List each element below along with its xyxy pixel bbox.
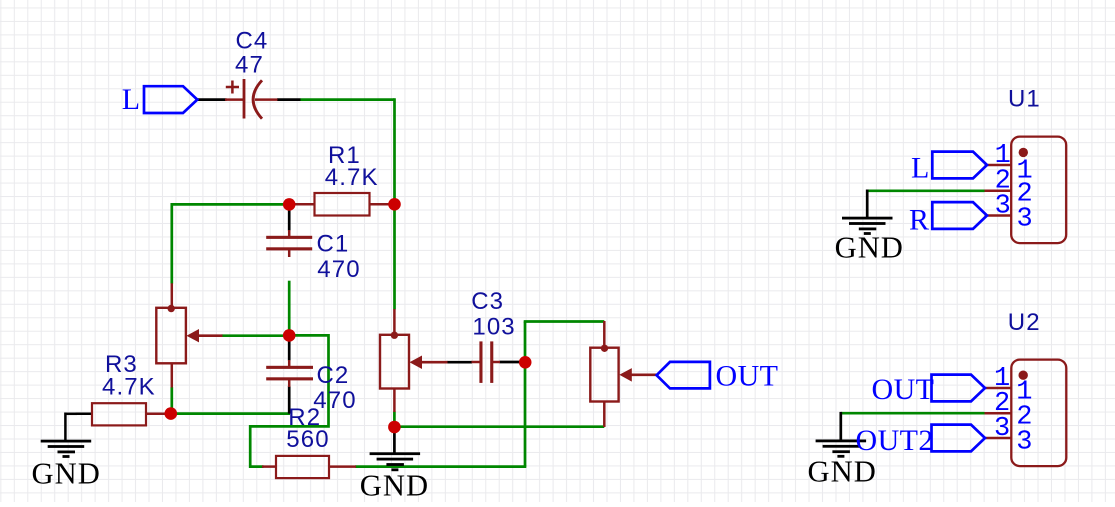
wire black C2 top lead from junction xyxy=(288,336,291,361)
wire black middle GND stem xyxy=(393,427,396,453)
svg-text:470: 470 xyxy=(317,256,360,283)
wire green vertical net x525 xyxy=(524,322,527,467)
svg-text:GND: GND xyxy=(835,231,904,265)
pin 2 of U1 xyxy=(985,190,1012,193)
wire black U1 GND stem xyxy=(866,190,869,219)
wire green bracket around R2 xyxy=(250,335,328,466)
svg-text:L: L xyxy=(122,83,141,116)
svg-text:560: 560 xyxy=(286,426,329,453)
wire green left pot wiper to junction xyxy=(222,334,290,337)
svg-text:3: 3 xyxy=(994,414,1010,444)
net flag OUT (left-pointing, at right pot) xyxy=(657,362,710,389)
svg-text:GND: GND xyxy=(808,454,877,488)
pin 2 of U2 xyxy=(985,412,1012,415)
ground (middle) xyxy=(370,452,421,471)
svg-text:3: 3 xyxy=(1017,205,1033,235)
wire green GND junction to right pot bottom xyxy=(394,425,604,428)
svg-text:C1: C1 xyxy=(317,231,350,258)
net flag L at U1 pin 1 xyxy=(932,152,987,179)
wire green middle pot bottom to junction xyxy=(393,412,396,428)
svg-text:GND: GND xyxy=(32,456,101,490)
pin 1 of U1 xyxy=(985,164,1012,167)
node junction R1 left / C1 xyxy=(283,198,296,211)
svg-text:GND: GND xyxy=(360,468,429,502)
svg-text:U2: U2 xyxy=(1008,309,1041,336)
svg-text:103: 103 xyxy=(472,314,515,341)
net flag L xyxy=(144,86,197,113)
potentiometer right xyxy=(590,321,657,427)
net flag R at U1 pin 3 xyxy=(932,202,987,229)
svg-text:3: 3 xyxy=(995,191,1011,221)
wire green U2 GND to pin 2 xyxy=(841,412,985,415)
wire black C1 top lead from R1 junction xyxy=(288,205,291,231)
wire black C4 right lead to green xyxy=(277,98,301,101)
svg-text:OUT2: OUT2 xyxy=(856,424,934,457)
pin 3 of U1 xyxy=(985,214,1012,217)
connector U2 body xyxy=(1011,360,1066,467)
wire green left pot bottom to junction xyxy=(170,387,173,413)
ground (U1) xyxy=(842,217,893,235)
node junction C1 bottom / wiper xyxy=(283,329,296,342)
wire green junction to C2 bottom node xyxy=(171,412,290,415)
wire green top right to pot xyxy=(524,320,605,323)
svg-text:U1: U1 xyxy=(1008,85,1041,112)
potentiometer left (top pin, body, wiper) xyxy=(156,283,222,387)
node junction C3 right xyxy=(519,356,532,369)
wire green U1 GND to pin 2 xyxy=(867,189,984,192)
capacitor C2 xyxy=(266,360,313,387)
wire green vertical R1 to middle pot xyxy=(393,204,396,309)
node junction middle GND xyxy=(388,421,401,434)
svg-text:OUT: OUT xyxy=(872,373,935,406)
svg-text:47: 47 xyxy=(235,51,264,78)
potentiometer middle xyxy=(380,309,448,412)
wire green R1 left junction to left corner xyxy=(171,203,291,206)
svg-text:R: R xyxy=(909,204,929,237)
resistor R2 xyxy=(262,456,356,478)
svg-text:C2: C2 xyxy=(317,362,350,389)
svg-text:OUT: OUT xyxy=(716,359,779,392)
wire green left vertical down to left pot xyxy=(170,203,173,284)
capacitor C3 xyxy=(472,341,501,383)
svg-text:4.7K: 4.7K xyxy=(325,164,379,191)
connector U1 body xyxy=(1011,137,1066,244)
capacitor C1 xyxy=(266,230,312,257)
svg-text:L: L xyxy=(911,151,930,184)
net flag OUT at U2 pin 1 xyxy=(932,375,986,402)
pin 3 of U2 xyxy=(985,437,1012,440)
wire green C1 bottom to junction xyxy=(288,281,291,336)
capacitor C4 xyxy=(225,79,278,119)
wire black C2 bottom lead down xyxy=(288,386,291,414)
ground (left, near R3) xyxy=(41,440,91,458)
node junction R1 right xyxy=(388,198,401,211)
wire black C3 right lead to junction xyxy=(500,361,525,364)
net flag OUT2 at U2 pin 3 xyxy=(932,425,986,452)
svg-text:3: 3 xyxy=(1016,427,1032,457)
wire black L flag to C4 xyxy=(197,98,227,101)
wire green vertical down to R1 right xyxy=(393,98,396,204)
node junction R3 / left pot xyxy=(165,407,178,420)
wire black U2 GND stem xyxy=(839,412,842,441)
wire black middle pot wiper to C3 xyxy=(447,361,472,364)
wire green R2 right to vertical xyxy=(355,465,526,468)
pin 1 of U2 xyxy=(985,387,1012,390)
svg-text:C3: C3 xyxy=(471,288,504,315)
resistor R1 xyxy=(292,193,392,216)
wire green C4 to top-right corner xyxy=(301,98,395,101)
resistor R3 xyxy=(65,403,166,441)
svg-text:4.7K: 4.7K xyxy=(102,374,156,401)
ground (U2) xyxy=(816,440,867,458)
